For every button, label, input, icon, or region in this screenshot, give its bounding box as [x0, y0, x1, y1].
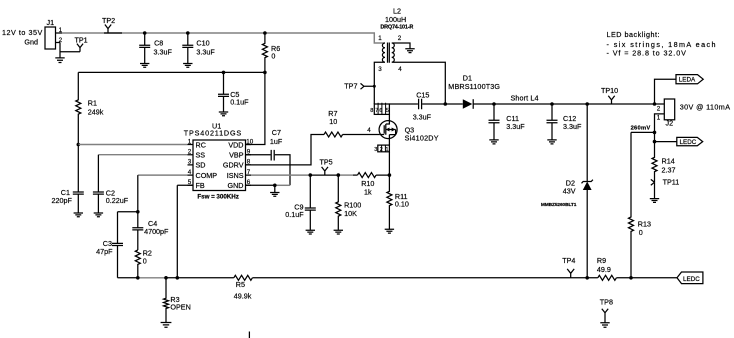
wire TP11 to ground	[654, 182, 656, 198]
svg-text:2: 2	[380, 147, 383, 153]
svg-text:SD: SD	[196, 161, 206, 170]
svg-text:R1: R1	[88, 98, 97, 107]
svg-text:4: 4	[188, 169, 192, 176]
wire VDD rail	[78, 71, 265, 73]
Q3 drain pins box 8 7 6 5	[370, 103, 389, 115]
svg-text:R14: R14	[662, 157, 675, 166]
svg-text:GDRV: GDRV	[223, 161, 244, 170]
junction bottom rail / R2	[136, 276, 140, 280]
resistor R3	[164, 278, 191, 323]
svg-text:249k: 249k	[88, 107, 104, 116]
test point TP11	[651, 178, 679, 187]
junction drain node / L2 pin4	[444, 102, 448, 106]
svg-text:SS: SS	[196, 151, 206, 160]
svg-text:VDD: VDD	[228, 140, 243, 149]
svg-text:0.22uF: 0.22uF	[106, 196, 129, 205]
svg-text:2: 2	[657, 105, 661, 112]
svg-text:3.3uF: 3.3uF	[563, 122, 582, 131]
svg-text:DRQ74-101-R: DRQ74-101-R	[380, 24, 413, 30]
partial drawing artifact at bottom edge	[248, 332, 250, 338]
wire drain node to C15	[389, 103, 418, 105]
resistor R14	[652, 142, 676, 183]
svg-text:260mV: 260mV	[631, 126, 651, 132]
zener diode D2 MMBZ5260BLT1	[541, 104, 593, 278]
svg-text:TP2: TP2	[102, 16, 115, 25]
connector J2	[657, 99, 675, 128]
svg-text:4: 4	[367, 127, 371, 134]
net flag LEDA	[676, 75, 703, 84]
junction bottom rail / R3	[164, 276, 168, 280]
resistor R5	[234, 275, 253, 300]
svg-text:0: 0	[639, 228, 643, 237]
svg-text:3: 3	[188, 159, 192, 166]
wire bottom feedback rail	[118, 277, 138, 279]
svg-text:TP5: TP5	[320, 158, 333, 167]
ground at L2 pin2	[405, 49, 414, 53]
svg-text:TP10: TP10	[601, 86, 618, 95]
svg-text:R5: R5	[236, 280, 245, 289]
junction output rail / C11	[492, 102, 496, 106]
svg-text:1: 1	[657, 114, 661, 121]
junction bottom rail / FB	[176, 276, 180, 280]
junction bottom rail / R13	[629, 276, 633, 280]
svg-text:3.3uF: 3.3uF	[154, 47, 173, 56]
svg-text:10: 10	[329, 117, 337, 126]
svg-text:8: 8	[370, 108, 373, 114]
wire SS net	[98, 154, 187, 156]
test point TP8	[600, 297, 613, 322]
wire to LEDC flag	[655, 141, 677, 143]
capacitor C3	[96, 212, 123, 278]
junction ISNS / R100	[337, 173, 341, 177]
U1 pin names	[196, 140, 244, 190]
svg-text:TPS40211DGS: TPS40211DGS	[184, 129, 242, 138]
junction input rail / C10	[186, 31, 190, 35]
resistor R100	[336, 175, 361, 230]
resistor R10	[358, 173, 390, 197]
ground at R100	[334, 230, 343, 234]
svg-text:- six strings, 18mA each: - six strings, 18mA each	[607, 40, 716, 49]
test point TP5	[320, 158, 333, 176]
svg-text:LEDA: LEDA	[679, 77, 696, 84]
svg-text:TP4: TP4	[562, 256, 575, 265]
ground at C8	[140, 64, 149, 68]
svg-text:ISNS: ISNS	[227, 171, 244, 180]
svg-text:0: 0	[143, 256, 147, 265]
svg-text:49.9k: 49.9k	[234, 291, 252, 300]
svg-text:C7: C7	[272, 128, 281, 137]
ground at J1	[55, 58, 64, 63]
ground at C1	[74, 213, 83, 217]
test point TP4	[562, 256, 575, 278]
svg-text:0.1uF: 0.1uF	[285, 210, 304, 219]
svg-text:30V @ 110mA: 30V @ 110mA	[680, 103, 731, 112]
ground at C11	[489, 140, 498, 144]
junction VDD rail / C5	[222, 71, 226, 75]
test point TP10	[601, 86, 618, 104]
ground at C12	[547, 140, 556, 144]
resistor R1	[76, 72, 104, 144]
junction 260mV node	[653, 131, 657, 135]
svg-text:4: 4	[398, 66, 402, 73]
test point TP7	[344, 82, 376, 91]
junction COMP network	[136, 210, 140, 214]
U1 pin ticks and numbers	[188, 138, 254, 186]
test point TP2	[102, 16, 115, 33]
junction LEDC branch	[653, 140, 657, 144]
svg-text:TP7: TP7	[344, 82, 357, 91]
svg-text:RC: RC	[196, 140, 206, 149]
svg-text:R9: R9	[597, 256, 606, 265]
svg-text:2.37: 2.37	[662, 166, 676, 175]
svg-text:C15: C15	[416, 90, 429, 99]
svg-text:3: 3	[378, 66, 382, 73]
junction output rail / D2	[585, 102, 589, 106]
svg-text:6: 6	[379, 108, 382, 114]
diode D1 MBRS1100T3G	[448, 74, 500, 109]
resistor R11	[387, 175, 409, 229]
junction R10 / Q3 source	[388, 173, 392, 177]
svg-text:FB: FB	[196, 181, 205, 190]
svg-text:LEDC: LEDC	[680, 139, 697, 146]
svg-text:Fsw = 300KHz: Fsw = 300KHz	[197, 193, 239, 200]
svg-text:43V: 43V	[563, 186, 576, 195]
svg-text:3.3uF: 3.3uF	[413, 113, 432, 122]
label LED backlight	[607, 30, 716, 58]
capacitor C9	[285, 175, 315, 230]
wire GND pin net	[246, 184, 275, 186]
svg-text:220pF: 220pF	[52, 196, 73, 205]
svg-text:4700pF: 4700pF	[144, 227, 169, 236]
junction output rail / C12	[550, 102, 554, 106]
svg-text:1uF: 1uF	[270, 137, 283, 146]
ground at R3	[161, 323, 172, 328]
wire GDRV to R7	[246, 135, 325, 165]
junction output rail / LEDA branch	[653, 102, 657, 106]
capacitor C12	[547, 104, 582, 140]
svg-text:2: 2	[188, 149, 192, 156]
svg-text:MBRS1100T3G: MBRS1100T3G	[448, 82, 500, 91]
wire FB net	[177, 185, 193, 277]
svg-text:7: 7	[247, 169, 251, 176]
capacitor C5	[218, 72, 249, 111]
test point TP1	[75, 36, 88, 52]
ground at R14/TP11	[650, 199, 659, 203]
wire Q3 source to R10/R11	[388, 152, 390, 175]
svg-text:1: 1	[378, 35, 382, 42]
transistor Q3 Si4102DY	[379, 114, 439, 145]
resistor R2	[135, 249, 152, 278]
svg-text:C10: C10	[196, 38, 209, 47]
svg-text:TP8: TP8	[600, 297, 613, 306]
junction bottom rail / D2	[585, 276, 589, 280]
svg-text:5: 5	[386, 108, 389, 114]
junction VDD rail / R6	[263, 71, 267, 75]
wire J2 pin1 down	[655, 114, 665, 142]
junction ISNS / C9	[309, 173, 313, 177]
resistor R9	[597, 256, 616, 280]
svg-text:- Vf = 28.8 to 32.0V: - Vf = 28.8 to 32.0V	[607, 49, 687, 58]
svg-text:0: 0	[271, 52, 275, 61]
svg-text:LED backlight:: LED backlight:	[607, 30, 660, 39]
svg-text:TP1: TP1	[75, 36, 88, 45]
capacitor C15	[413, 90, 463, 121]
wire COMP net	[138, 174, 188, 176]
svg-text:J1: J1	[47, 18, 55, 27]
junction input rail / R6	[263, 31, 267, 35]
wire to LEDA flag	[655, 79, 677, 104]
wire R7 to Q3 gate	[343, 134, 380, 136]
capacitor C8	[139, 33, 172, 63]
capacitor C1	[52, 145, 84, 213]
junction GND / ground	[273, 184, 277, 188]
wire output rail D1 to J2	[473, 103, 664, 105]
svg-text:3.3uF: 3.3uF	[506, 122, 525, 131]
ground at C10	[183, 64, 192, 68]
capacitor C11	[489, 104, 526, 140]
wire VDD pin stub	[246, 72, 265, 144]
svg-text:Gnd: Gnd	[24, 38, 38, 47]
ground at C9	[306, 230, 315, 234]
junction R1 / RC wire	[77, 143, 81, 147]
svg-text:Short L4: Short L4	[511, 94, 539, 103]
capacitor C10	[182, 33, 215, 63]
svg-text:2: 2	[398, 35, 402, 42]
inductor L2 DRQ74-101-R	[374, 7, 445, 105]
net flag LEDC upper	[677, 137, 703, 146]
svg-text:MMBZ5260BLT1: MMBZ5260BLT1	[541, 202, 577, 208]
svg-text:100uH: 100uH	[385, 15, 406, 24]
svg-text:LEDC: LEDC	[683, 276, 700, 283]
svg-text:Si4102DY: Si4102DY	[405, 134, 439, 143]
svg-text:7: 7	[375, 108, 378, 114]
ground at R11	[385, 229, 394, 233]
wire RC net	[78, 144, 187, 146]
IC U1 TPS40211DGS	[184, 122, 246, 201]
svg-text:OPEN: OPEN	[170, 303, 190, 312]
wire J1 pin2 to ground	[60, 43, 80, 58]
connector J1	[45, 18, 63, 49]
svg-text:1k: 1k	[364, 188, 372, 197]
resistor R6	[262, 33, 280, 72]
resistor R13	[629, 132, 651, 277]
resistor R7	[324, 109, 343, 137]
svg-text:12V to 35V: 12V to 35V	[2, 28, 43, 37]
svg-text:GND: GND	[228, 181, 244, 190]
wire COMP to compensation network	[118, 175, 138, 212]
wire ISNS net	[251, 174, 310, 176]
net flag LEDC bottom	[677, 272, 703, 284]
ground at TP8	[600, 323, 609, 327]
svg-text:0.1uF: 0.1uF	[230, 97, 249, 106]
wire input rail J1 pin1 to L2 pin1	[62, 33, 384, 43]
svg-text:VBP: VBP	[229, 151, 244, 160]
ground at C2	[94, 213, 103, 217]
junction input rail / C8	[143, 31, 147, 35]
svg-text:1: 1	[188, 138, 192, 145]
svg-text:10K: 10K	[344, 209, 357, 218]
svg-text:3.3uF: 3.3uF	[196, 47, 215, 56]
svg-text:47pF: 47pF	[96, 247, 113, 256]
ground at C5	[219, 112, 228, 116]
svg-text:3: 3	[374, 147, 377, 153]
capacitor C4	[132, 212, 169, 250]
svg-text:COMP: COMP	[196, 171, 218, 180]
ground at U1 GND	[270, 193, 279, 197]
svg-text:J2: J2	[666, 119, 674, 128]
Q3 source pins box 3 2 1	[374, 145, 389, 153]
wire 260mV node to R13	[631, 131, 655, 133]
svg-text:0.10: 0.10	[395, 200, 409, 209]
svg-text:C8: C8	[154, 38, 163, 47]
svg-text:1: 1	[386, 147, 389, 153]
capacitor C7	[246, 128, 291, 185]
svg-text:49.9: 49.9	[597, 265, 611, 274]
capacitor C2	[93, 155, 129, 213]
svg-text:TP11: TP11	[663, 178, 680, 187]
